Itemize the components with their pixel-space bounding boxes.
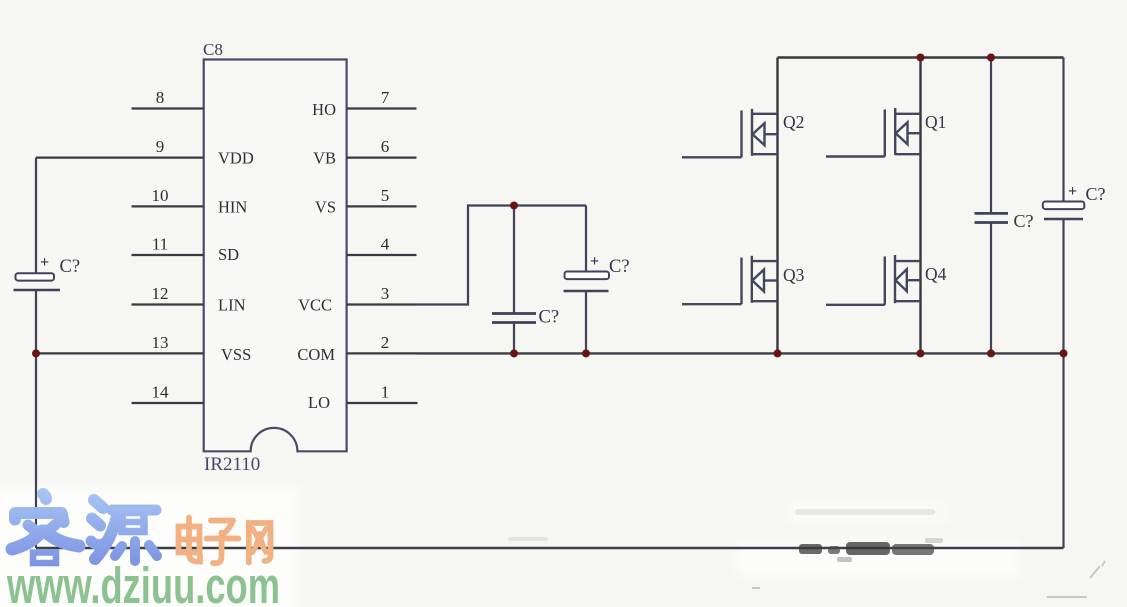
svg-text:C?: C? [1086,184,1106,204]
IC U1 IR2110 body [204,60,347,452]
junction node COM Q4 [917,349,925,357]
svg-text:14: 14 [152,383,170,402]
svg-text:Q2: Q2 [783,112,804,132]
watermark 容 (blue) [12,494,79,563]
svg-text:VDD: VDD [218,149,254,168]
svg-text:2: 2 [381,333,390,352]
svg-text:7: 7 [381,88,390,107]
wire left vertical lower [35,353,37,548]
watermark 网 (orange) [249,523,271,563]
svg-text:VS: VS [315,198,336,217]
pin 6 [347,157,417,159]
transistor Q3 [682,256,778,304]
junction node top bus right cap [987,54,995,62]
wire left vertical from C1 bottom to VSS row [35,290,37,353]
junction node COM right outer [1060,349,1068,357]
pin 1 [347,402,418,404]
svg-text:SD: SD [218,245,239,264]
svg-text:COM: COM [297,345,335,364]
svg-text:LO: LO [308,393,330,412]
watermark 源 (blue) [91,500,157,561]
transistor Q1 [826,108,921,157]
wire COM bus pin2 to right [417,352,1064,354]
svg-text:Q1: Q1 [925,112,946,132]
pin 2 [347,352,417,354]
capacitor C3 (middle electrolytic C?) [564,272,610,292]
junction node at mid top [510,202,518,210]
svg-text:C?: C? [60,257,81,277]
svg-text:IR2110: IR2110 [204,454,260,475]
svg-text:C?: C? [1014,211,1034,231]
svg-text:C?: C? [539,308,560,328]
wire top bus [778,56,1064,58]
svg-text:11: 11 [152,235,168,254]
pin 5 [347,205,417,207]
junction node COM Q3 [774,349,782,357]
svg-text:9: 9 [156,137,165,156]
svg-text:+: + [590,253,599,270]
pin 13 [36,352,204,354]
svg-text:+: + [40,254,49,271]
wire bottom bus [36,547,1064,549]
svg-text:5: 5 [381,186,390,205]
svg-text:C?: C? [609,257,630,277]
wire left vertical from pin9 down to C? top [35,158,37,273]
svg-text:C8: C8 [203,40,223,59]
capacitor C2 (middle ceramic C?) [492,314,536,323]
watermark 子 (orange) [207,521,239,564]
wire mid electrolytic column [585,206,587,272]
junction node COM right ceramic [987,349,995,357]
capacitor C4 (right ceramic C?) [975,213,1009,222]
svg-text:VB: VB [313,149,336,168]
junction node COM mid electrolytic [582,349,590,357]
transistor Q4 [826,255,921,305]
junction node COM mid cap [510,349,518,357]
svg-text:13: 13 [152,333,169,352]
svg-text:LIN: LIN [218,296,246,315]
svg-text:VCC: VCC [298,296,332,315]
pin 8 [132,107,204,109]
svg-text:3: 3 [381,284,390,303]
svg-text:www.dziuu.com: www.dziuu.com [6,557,280,607]
pin 7 [347,107,417,109]
capacitor C1 (left electrolytic C?) [14,273,61,290]
svg-text:HO: HO [312,100,336,119]
wire right ceramic column [990,58,992,214]
capacitor C5 (right electrolytic C?) [1043,202,1085,220]
junction node top bus Q1 [917,54,925,62]
svg-text:Q4: Q4 [925,264,947,284]
svg-text:VSS: VSS [221,345,251,364]
pin 14 [132,402,204,404]
svg-text:HIN: HIN [218,198,247,217]
pin 10 [132,205,204,207]
svg-text:10: 10 [152,186,169,205]
pin 4 [347,254,417,256]
watermark 电 (orange) [179,518,201,562]
svg-text:12: 12 [152,284,169,303]
pin 9 [36,157,204,159]
pin 11 [132,254,204,256]
svg-text:6: 6 [381,137,390,156]
pin 12 [132,303,204,305]
svg-text:+: + [1068,183,1077,200]
svg-text:Q3: Q3 [783,265,805,285]
smudge artifacts near bottom right [799,538,943,562]
wire mid cap column [513,206,515,314]
svg-text:4: 4 [381,235,390,254]
svg-text:1: 1 [381,383,390,402]
wire Q2-Q3 column [776,58,778,354]
wire pin3 VCC riser [417,206,587,305]
junction node VSS left [32,349,40,357]
wire right outer vertical [1062,58,1064,203]
wire Q1-Q4 column [919,58,921,354]
pin 3 [347,303,417,305]
transistor Q2 [682,109,778,158]
svg-text:8: 8 [156,88,165,107]
